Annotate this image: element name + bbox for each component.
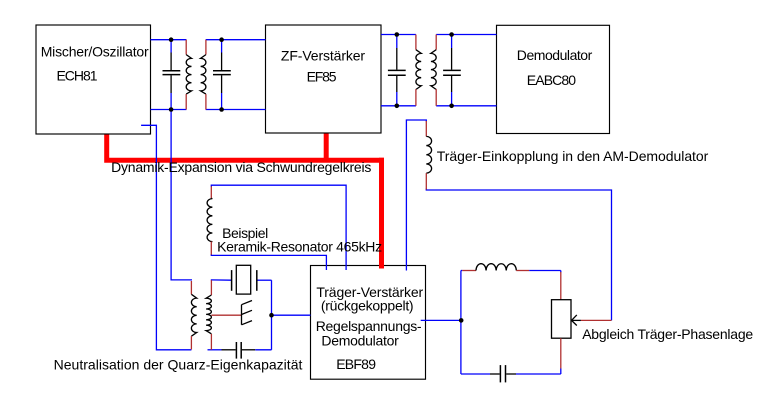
capacitor C4 (transformer 2 secondary) — [443, 48, 461, 92]
capacitor C3 (transformer 2 primary) — [388, 48, 406, 92]
feedback line vertical into box4 (thick red) — [379, 158, 384, 269]
svg-text:(rückgekoppelt): (rückgekoppelt) — [321, 298, 414, 314]
wire: IF transformer 2 top right to box3 — [436, 34, 496, 36]
capacitor C2 (transformer 1 secondary) — [213, 53, 231, 94]
svg-text:EF85: EF85 — [307, 69, 337, 85]
svg-text:Demodulator: Demodulator — [517, 47, 593, 63]
inductor L7 (neutralisation transformer primary) — [190, 281, 192, 294]
capacitor C5 (neutralisation capacitor) — [235, 342, 237, 359]
wire tap to trimmer (red) — [211, 314, 241, 316]
resonator loop wires (Keramik-Resonator example) — [211, 254, 326, 270]
node transformer2 top-right — [449, 32, 454, 37]
wire: box1 stub to quartz bottom — [141, 125, 191, 349]
node tank left — [459, 318, 464, 323]
wire: IF transformer 1 top right to box2 — [206, 39, 266, 41]
svg-text:Mischer/Oszillator: Mischer/Oszillator — [41, 43, 149, 59]
adjustment arrow into potentiometer — [581, 319, 612, 321]
node transformer1 top-right — [219, 37, 224, 42]
inductor L1 (transformer 1 primary coil) — [185, 40, 187, 55]
svg-text:EBF89: EBF89 — [336, 356, 376, 372]
node transformer2 bottom-right — [449, 104, 454, 109]
svg-text:ECH81: ECH81 — [57, 68, 98, 84]
crystal Q1 (quartz) — [232, 265, 257, 294]
inductor L8 (neutralisation transformer secondary with tap) — [210, 280, 212, 295]
svg-text:Dynamik-Expansion via Schwundr: Dynamik-Expansion via Schwundregelkreis — [111, 159, 371, 175]
capacitor C1 (transformer 1 primary) — [163, 53, 181, 94]
Träger-Einkopplung wires — [406, 120, 426, 271]
feedback line (Schwundregelkreis) thick red — [107, 133, 384, 160]
wire crystal right side down to node and box4 — [271, 280, 273, 350]
box U3 Demodulator EABC80 — [497, 25, 610, 133]
box U1 Mischer/Oszillator ECH81 — [36, 25, 151, 134]
inductor L3 (transformer 2 primary coil) — [415, 35, 417, 50]
inductor L9 (tank coil) — [476, 264, 516, 271]
svg-text:EABC80: EABC80 — [527, 72, 577, 88]
inductor L5 (Keramik-Resonator) — [210, 186, 212, 198]
wire: box2 to IF transformer 2 bottom — [381, 105, 416, 107]
node transformer1 top-left — [169, 37, 174, 42]
wire: box1 to IF transformer 1 bottom — [151, 109, 187, 111]
wire: transformer1 bottom node down to quartz top — [171, 110, 192, 280]
wire: IF transformer 2 bottom right to box3 — [436, 105, 496, 107]
svg-text:Demodulator: Demodulator — [321, 333, 399, 349]
svg-text:Abgleich Träger-Phasenlage: Abgleich Träger-Phasenlage — [582, 326, 753, 342]
wire box4 to tank node — [421, 319, 461, 321]
node transformer2 top-left — [395, 32, 400, 37]
wire: IF transformer 1 bottom right to box2 — [206, 109, 266, 111]
node transformer1 bottom-right — [219, 107, 224, 112]
capacitor C6 (tank capacitor) — [499, 365, 501, 382]
svg-text:Keramik-Resonator 465kHz: Keramik-Resonator 465kHz — [217, 239, 382, 255]
trimmer CT1 (adjustable core symbol) — [242, 301, 253, 325]
box U2 ZF-Verstärker EF85 — [266, 25, 382, 133]
node transformer1 bottom-left — [169, 107, 174, 112]
quartz bottom wire right segment with capacitor C5 — [208, 349, 222, 351]
svg-text:Neutralisation der Quarz-Eigen: Neutralisation der Quarz-Eigenkapazität — [54, 357, 303, 373]
svg-text:ZF-Verstärker: ZF-Verstärker — [281, 48, 366, 64]
tank bottom wire with capacitor C6 — [461, 373, 490, 375]
potentiometer R1 (Abgleich) right branch — [560, 271, 562, 273]
svg-text:Träger-Einkopplung in den AM-D: Träger-Einkopplung in den AM-Demodulator — [437, 148, 709, 164]
tank top wire with inductor L9 — [461, 270, 462, 272]
inductor L6 (Träger-Einkopplung coil) — [425, 121, 427, 136]
node transformer2 bottom-left — [395, 104, 400, 109]
node quartz right — [269, 313, 274, 318]
quartz top wire segments — [211, 279, 232, 281]
inductor L4 (transformer 2 secondary coil) — [435, 35, 437, 50]
wire: box2 to IF transformer 2 top — [381, 34, 416, 36]
box U4 Träger-Verstärker EBF89 — [311, 266, 426, 380]
tank circuit left vertical and node — [460, 271, 462, 375]
wire: box1 to IF transformer 1 top — [151, 39, 187, 41]
inductor L2 (transformer 1 secondary coil) — [205, 40, 207, 55]
